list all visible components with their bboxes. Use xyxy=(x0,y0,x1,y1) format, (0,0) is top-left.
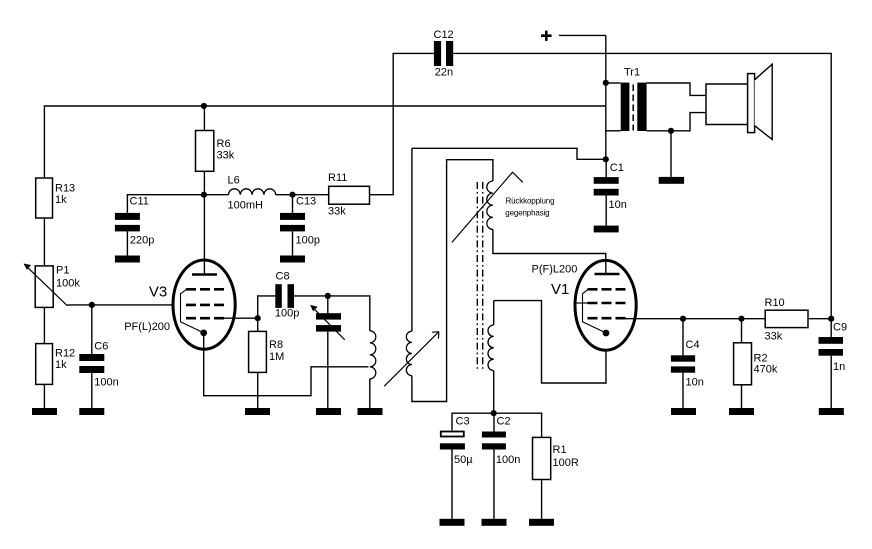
capacitor C4 xyxy=(671,319,704,408)
svg-text:Tr1: Tr1 xyxy=(624,67,640,79)
loudspeaker xyxy=(706,64,772,139)
wire C12 to right edge down to C9 node xyxy=(453,53,831,318)
node junction R6 / L6 / V3 anode xyxy=(201,192,207,198)
node junction C1 / anode feed xyxy=(603,156,609,162)
svg-text:C8: C8 xyxy=(276,271,290,283)
wire grid coil top to V1 cathode xyxy=(494,301,606,383)
ground C13 xyxy=(280,256,305,263)
ground R2 xyxy=(729,408,754,415)
ground C4 xyxy=(671,408,696,415)
wire V3 anode xyxy=(203,195,205,275)
node junction R2 xyxy=(738,316,744,322)
svg-text:470k: 470k xyxy=(754,364,778,376)
node junction C2 C3 R1 xyxy=(491,410,497,416)
wire C13 drop xyxy=(292,195,294,213)
wire V1 g1 to C4 node xyxy=(624,318,684,320)
wire R6 bottom to node xyxy=(203,171,205,194)
wire C13 to ground xyxy=(292,231,294,255)
node junction C9 xyxy=(828,316,834,322)
svg-text:1k: 1k xyxy=(55,359,67,371)
node junction secondary ground xyxy=(668,128,674,134)
wire Tr1 secondary top to speaker xyxy=(647,83,706,95)
capacitor C2 xyxy=(482,413,520,519)
resistor R11 xyxy=(328,172,370,218)
wire C8 to junction xyxy=(294,295,328,297)
svg-text:C3: C3 xyxy=(456,416,470,428)
svg-text:33k: 33k xyxy=(217,150,235,162)
svg-text:50µ: 50µ xyxy=(454,454,473,466)
wire left rail down to R13 xyxy=(43,105,45,178)
resistor R8 xyxy=(249,318,285,408)
svg-text:C1: C1 xyxy=(610,162,624,174)
svg-text:C6: C6 xyxy=(94,341,108,353)
ground C2 xyxy=(482,519,507,526)
svg-text:C11: C11 xyxy=(130,195,149,207)
node junction C13 xyxy=(289,192,295,198)
svg-text:R13: R13 xyxy=(55,183,75,195)
svg-text:C13: C13 xyxy=(296,196,316,208)
resistor R2 xyxy=(734,319,778,408)
svg-text:C2: C2 xyxy=(497,416,511,428)
wire P1 wiper to V3 g2 xyxy=(67,304,186,306)
svg-text:R12: R12 xyxy=(55,348,75,360)
wire L6 to C13 node xyxy=(276,194,293,196)
svg-text:P(F)L200: P(F)L200 xyxy=(532,263,578,275)
svg-text:100R: 100R xyxy=(553,457,579,469)
resistor R13 xyxy=(36,178,75,218)
ground C9 xyxy=(819,408,844,415)
capacitor C12 xyxy=(434,29,454,79)
wire node to R11 xyxy=(293,194,329,196)
capacitor C6 xyxy=(79,341,118,389)
svg-text:L6: L6 xyxy=(228,175,240,187)
svg-text:P1: P1 xyxy=(56,264,69,276)
ground C11 xyxy=(115,256,140,263)
node junction above R6 xyxy=(201,103,207,109)
resistor R12 xyxy=(36,344,75,385)
svg-text:33k: 33k xyxy=(765,331,783,343)
transformer Tr1 xyxy=(621,67,647,132)
svg-text:100p: 100p xyxy=(296,235,320,247)
wire junction to ground xyxy=(670,131,672,177)
svg-text:100k: 100k xyxy=(56,277,80,289)
svg-text:100n: 100n xyxy=(94,377,118,389)
wire R10 to C9 node xyxy=(808,318,831,320)
node junction C8 / varcap / coil xyxy=(325,293,331,299)
ground R12 xyxy=(32,408,57,415)
node junction Tr1 primary top xyxy=(603,80,609,86)
svg-text:R6: R6 xyxy=(217,138,231,150)
svg-text:gegenphasig: gegenphasig xyxy=(505,208,549,217)
ground C6 xyxy=(79,408,104,415)
svg-text:100mH: 100mH xyxy=(228,199,264,211)
node junction V3 g1 / C8 / R8 xyxy=(255,315,261,321)
wire feedback coil to V1 anode xyxy=(493,229,606,274)
svg-text:1k: 1k xyxy=(55,194,67,206)
ground C1 xyxy=(594,226,619,233)
node junction C4 xyxy=(680,316,686,322)
wire P1 to R12 xyxy=(43,307,45,343)
svg-text:V3: V3 xyxy=(149,283,167,300)
tube V3 PF(L)200 xyxy=(124,260,235,349)
svg-text:V1: V1 xyxy=(551,281,569,298)
capacitor C13 xyxy=(280,196,320,247)
wire C6 to ground xyxy=(91,373,93,408)
label Rueckkopplung gegenphasig xyxy=(505,196,554,217)
svg-text:R10: R10 xyxy=(765,297,785,309)
svg-text:R8: R8 xyxy=(269,339,283,351)
wire node up to C8 xyxy=(258,296,276,318)
resistor R10 xyxy=(765,297,809,343)
wire C1 node to tuned circuit xyxy=(412,148,606,159)
wire R11 up to C12 xyxy=(370,53,434,194)
svg-text:1n: 1n xyxy=(833,361,845,373)
resistor R6 xyxy=(196,131,235,172)
inductor tuning coil xyxy=(406,331,412,376)
inductor grid coil xyxy=(488,301,494,414)
resistor R1 xyxy=(533,437,579,518)
wire V3 g1 to node xyxy=(222,317,258,319)
svg-text:C9: C9 xyxy=(833,321,847,333)
inductor L6 100mH xyxy=(228,175,276,212)
wire Tr1 secondary bottom to speaker xyxy=(647,113,706,131)
feedback adjustment diagonal xyxy=(452,172,523,242)
wire node to C11 xyxy=(127,195,203,213)
ground detector coil xyxy=(358,408,383,415)
variable capacitor xyxy=(310,296,345,408)
svg-text:22n: 22n xyxy=(435,67,453,79)
capacitor C8 xyxy=(275,271,299,320)
capacitor C11 xyxy=(115,195,154,246)
svg-text:R11: R11 xyxy=(328,172,347,184)
wire junction to detector coil xyxy=(328,296,370,331)
wire rail to R6 xyxy=(203,106,205,131)
svg-text:1M: 1M xyxy=(269,351,284,363)
capacitor C9 xyxy=(819,319,848,408)
tube V1 P(F)L200 xyxy=(532,260,637,350)
transformer core dash-dot lines xyxy=(477,182,482,371)
wire C11 to ground xyxy=(126,231,128,255)
svg-text:100p: 100p xyxy=(275,307,299,319)
ground R1 xyxy=(529,519,554,526)
wire R2 node to R10 xyxy=(742,318,766,320)
svg-text:10n: 10n xyxy=(609,199,627,211)
wire B+ vertical xyxy=(605,35,607,159)
power + terminal xyxy=(541,31,606,41)
wire outer loop left side upper xyxy=(411,148,413,331)
svg-text:R1: R1 xyxy=(553,444,567,456)
wire junction to C6 xyxy=(91,305,93,354)
svg-text:Rückkopplung: Rückkopplung xyxy=(506,196,555,205)
arrow tuning coil adjustable xyxy=(384,332,439,387)
node junction wiper / C6 xyxy=(89,302,95,308)
capacitor C3 electrolytic xyxy=(440,416,473,519)
inductor detector coil xyxy=(370,331,376,408)
wire R13 to P1 xyxy=(43,218,45,266)
svg-text:33k: 33k xyxy=(328,206,346,218)
inductor feedback coil xyxy=(487,181,493,229)
svg-text:PF(L)200: PF(L)200 xyxy=(124,321,170,333)
svg-text:C4: C4 xyxy=(686,339,700,351)
wire B+ rail horizontal xyxy=(44,105,605,107)
ground Tr1 secondary xyxy=(659,177,684,184)
capacitor C1 xyxy=(594,159,627,225)
ground variable capacitor xyxy=(316,408,341,415)
svg-text:C12: C12 xyxy=(434,29,454,41)
wire Tr1 primary bottom xyxy=(606,130,621,132)
svg-text:220p: 220p xyxy=(130,235,154,247)
wire R12 to ground xyxy=(43,384,45,408)
wire V3 cathode to coil tap xyxy=(204,333,369,396)
wire bottom node line xyxy=(452,413,542,437)
wire junction to Tr1 primary top xyxy=(606,82,621,84)
svg-text:10n: 10n xyxy=(686,377,704,389)
wire C4 node to R2 node xyxy=(683,318,742,320)
ground R8 xyxy=(245,408,270,415)
wire outer loop bottom and inner left side xyxy=(412,160,493,402)
svg-text:100n: 100n xyxy=(496,454,520,466)
potentiometer P1 xyxy=(24,264,81,308)
ground C3 xyxy=(440,519,465,526)
wire node to L6 xyxy=(204,194,229,196)
